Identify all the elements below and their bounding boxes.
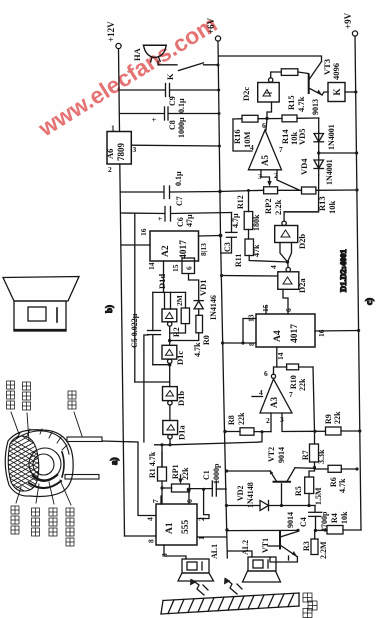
resistor R0 4.7k <box>170 315 211 357</box>
wire to D2a out <box>287 262 289 268</box>
junction A6 out rail <box>218 145 221 148</box>
transistor VT2 9014 <box>267 447 295 482</box>
svg-text:R1 4.7k: R1 4.7k <box>148 451 157 478</box>
capacitor C5 0.022u <box>130 292 161 364</box>
wire A4 pin8 left to rail <box>223 342 257 344</box>
svg-text:A1: A1 <box>165 522 175 534</box>
svg-text:D1.D2:4001: D1.D2:4001 <box>338 249 348 292</box>
gate D1d <box>157 274 177 327</box>
svg-text:4: 4 <box>259 388 263 397</box>
resistor R12 180k <box>236 191 261 240</box>
wire A5 output up <box>266 118 267 130</box>
svg-text:D1b: D1b <box>176 391 186 406</box>
svg-text:7: 7 <box>289 390 293 399</box>
svg-text:R8: R8 <box>227 415 236 425</box>
svg-text:+12V: +12V <box>106 21 116 42</box>
junction R9 rail <box>358 429 361 432</box>
transducer mesh hatch <box>0 425 44 512</box>
resistor R16 10M <box>232 115 258 148</box>
IC A1 555 <box>146 499 207 557</box>
junction R5 bottom <box>307 504 310 507</box>
junction D1c out <box>168 363 171 366</box>
watermark www.elecfans.com <box>33 11 221 142</box>
wire AL2 left to rail <box>227 551 252 557</box>
wire middle rail <box>218 41 227 558</box>
transistor VT1 9014 <box>261 512 297 557</box>
gate D2c <box>241 78 279 102</box>
wire A4 pin13 left <box>243 319 256 344</box>
svg-text:C1: C1 <box>202 470 211 480</box>
svg-text:b): b) <box>104 305 114 313</box>
svg-text:4: 4 <box>269 265 278 269</box>
wire A4 pin16 to rail <box>315 330 359 333</box>
svg-text:1.5M: 1.5M <box>314 487 323 505</box>
svg-text:+6V: +6V <box>206 17 216 34</box>
svg-text:R0: R0 <box>202 335 211 345</box>
arrow AL2 <box>224 578 242 595</box>
junction R12 top <box>247 189 250 192</box>
capacitor C1 1000p <box>202 463 226 496</box>
svg-text:180k: 180k <box>252 214 261 231</box>
wire D2b inputs <box>280 243 292 263</box>
wire A4 pin14 down <box>276 347 278 367</box>
wire A2 pin14 down <box>163 261 165 292</box>
svg-text:R13: R13 <box>317 196 327 211</box>
wire D1c out down <box>169 363 171 386</box>
capacitor C4 4700p <box>299 506 329 533</box>
svg-text:C9: C9 <box>168 96 177 106</box>
potentiometer RP1 22k <box>171 464 190 492</box>
wire relay to rail <box>345 91 356 93</box>
svg-text:C7: C7 <box>175 196 184 206</box>
svg-text:RP2: RP2 <box>263 198 273 214</box>
diode VD2 1N4148 <box>225 482 309 510</box>
wire branch y382 <box>135 381 170 383</box>
svg-text:+: + <box>150 117 159 122</box>
svg-text:C6: C6 <box>176 217 185 227</box>
capacitor C9 0.1u <box>166 84 187 114</box>
svg-text:R10: R10 <box>289 375 298 389</box>
arrow AL1 <box>190 579 208 596</box>
+6V terminal <box>206 17 221 41</box>
svg-text:AL2: AL2 <box>241 540 250 555</box>
op-amp A3 <box>252 369 293 425</box>
svg-text:D2a: D2a <box>297 278 307 293</box>
wire collector top run <box>219 56 322 62</box>
junction VT1 c <box>296 529 299 532</box>
svg-text:4.7k: 4.7k <box>193 342 202 357</box>
svg-text:6: 6 <box>262 121 266 130</box>
svg-text:1: 1 <box>111 124 115 133</box>
label pingbizhao <box>7 381 15 409</box>
wire rail to D2a <box>222 275 278 278</box>
svg-text:6: 6 <box>284 308 293 312</box>
wire bottom node row <box>309 505 315 507</box>
resistor R8 22k <box>223 412 271 435</box>
wire y431 to R9 <box>282 413 326 432</box>
junction emitter rail <box>225 469 228 472</box>
IC A2 4017 <box>139 228 208 272</box>
svg-text:15: 15 <box>171 264 180 272</box>
junction R1 top <box>160 443 163 446</box>
svg-text:a): a) <box>109 458 119 466</box>
junction A2 mid rail <box>219 234 223 238</box>
+12V terminal <box>106 21 121 49</box>
resistor R4 10k <box>314 511 349 534</box>
svg-text:+9V: +9V <box>343 12 353 29</box>
junction C9 rail <box>217 89 220 92</box>
svg-text:AL1: AL1 <box>210 544 219 559</box>
wire VT2 base down <box>281 484 283 506</box>
svg-text:VT2: VT2 <box>267 447 276 462</box>
resistor R5 1.5M <box>294 477 323 506</box>
svg-text:10k: 10k <box>340 511 349 524</box>
svg-text:1N4001: 1N4001 <box>327 124 336 150</box>
junction R13 rail <box>355 188 358 191</box>
svg-text:R12: R12 <box>236 195 245 209</box>
svg-text:4.7k: 4.7k <box>338 478 347 493</box>
wire A4 pin15 up <box>265 306 267 314</box>
svg-text:3: 3 <box>133 145 137 154</box>
resistor R7 3.3k <box>301 431 326 467</box>
svg-text:VT1: VT1 <box>261 538 270 553</box>
svg-text:22k: 22k <box>298 378 307 391</box>
junction switch-rail <box>217 64 220 67</box>
junction C7 row rail <box>218 190 221 193</box>
wire R1 top <box>161 445 163 467</box>
wire RP1 right to C1 <box>190 488 213 490</box>
junction R7 top <box>313 430 316 433</box>
svg-text:10k: 10k <box>327 201 337 215</box>
gate D2a <box>269 265 307 293</box>
transducer AL2 <box>241 540 281 582</box>
svg-text:8|13: 8|13 <box>199 243 208 256</box>
label fushekou <box>11 506 19 534</box>
+9V terminal <box>343 12 358 36</box>
wire VD4 to D2b out <box>284 175 319 212</box>
svg-text:R7: R7 <box>301 450 310 460</box>
resistor R3 2.2M <box>302 530 328 559</box>
junction R7 bottom <box>313 466 316 469</box>
regulator A6 7809 <box>105 124 137 175</box>
wire D2c in from node <box>267 102 272 118</box>
junction D2a rail <box>220 274 223 277</box>
svg-text:K: K <box>332 88 342 95</box>
wire A3 out up <box>274 367 287 374</box>
gate D1b <box>163 387 187 406</box>
svg-text:D2c: D2c <box>241 87 251 101</box>
svg-text:2: 2 <box>266 416 270 425</box>
relay K <box>328 83 345 102</box>
label pingbidiban <box>66 508 74 546</box>
svg-text:R6: R6 <box>329 477 338 487</box>
svg-text:R9: R9 <box>324 414 333 424</box>
svg-text:C8: C8 <box>168 120 177 130</box>
speaker drawing b <box>3 277 79 332</box>
wire VT2 emitter to rail <box>227 470 271 472</box>
wire 555 pin3 down <box>164 545 186 559</box>
transducer AL1 <box>178 544 219 581</box>
wire 555 pin1 right <box>197 536 227 538</box>
hatched bar object <box>161 593 299 614</box>
svg-text:9014: 9014 <box>277 447 286 463</box>
resistor R9 22k <box>324 411 360 435</box>
svg-text:7: 7 <box>279 145 283 154</box>
wire A6 out pin3 <box>131 144 219 147</box>
svg-text:R5: R5 <box>294 486 303 496</box>
junction D1a wire R8 <box>260 430 263 433</box>
svg-text:VD4: VD4 <box>299 158 309 175</box>
wire node row y119 <box>233 118 319 132</box>
wire right rail <box>355 36 361 530</box>
junction D1a wire <box>168 443 171 446</box>
IC A4 4017 <box>247 304 327 360</box>
wire D2a inputs down <box>283 289 288 314</box>
svg-text:D1c: D1c <box>175 351 185 365</box>
capacitor C7 0.1u <box>164 171 184 206</box>
capacitor C3 4.7u <box>221 213 240 254</box>
wire C7 row <box>121 191 221 194</box>
resistor R6 4.7k <box>315 465 359 493</box>
wire A5 pin3 to RP2 arrow <box>261 170 272 187</box>
wire D1a out long right <box>155 432 262 445</box>
svg-text:14: 14 <box>147 262 156 270</box>
wire C9 row <box>119 89 219 91</box>
svg-text:1000p: 1000p <box>212 463 221 484</box>
gate D1c <box>162 345 185 365</box>
wire A2 pin16 to rail left <box>122 244 151 246</box>
wire VT1 emitter <box>288 556 290 560</box>
switch K <box>165 63 218 80</box>
svg-text:16: 16 <box>139 228 148 236</box>
svg-text:R3: R3 <box>302 541 311 551</box>
resistor R2 2M <box>170 292 190 337</box>
svg-text:6: 6 <box>264 369 268 378</box>
svg-text:VD5: VD5 <box>297 128 307 145</box>
svg-text:A6: A6 <box>105 149 115 159</box>
wire HA to switch <box>158 61 177 65</box>
wire A5 feedback left <box>233 119 252 151</box>
wire 555 pin6 up <box>188 490 190 504</box>
wire D2b out up <box>284 212 318 221</box>
svg-text:R4: R4 <box>330 513 339 523</box>
svg-text:RP1: RP1 <box>171 464 180 479</box>
label xiezhenpian <box>32 508 40 536</box>
svg-text:555: 555 <box>181 520 191 535</box>
svg-text:47μ: 47μ <box>185 214 194 227</box>
svg-text:2M: 2M <box>175 295 184 306</box>
wire left rail to 555 <box>125 535 157 537</box>
junction A4 pin8 rail <box>221 341 224 344</box>
svg-text:4096: 4096 <box>331 63 341 80</box>
wire D1c out junction <box>153 364 170 366</box>
transducer pin bottom <box>65 475 99 480</box>
junction relay rail <box>354 90 357 93</box>
junction RP1 left <box>160 486 163 489</box>
svg-text:4: 4 <box>146 517 155 521</box>
label yinjiao <box>68 391 76 409</box>
svg-text:C3: C3 <box>223 242 232 252</box>
wire R7 node to R5 top <box>309 468 315 478</box>
svg-text:0.1μ: 0.1μ <box>177 98 186 113</box>
pin box A2 bottom <box>182 258 195 274</box>
transducer pin top <box>67 437 102 442</box>
junction VD5 rail <box>355 151 358 154</box>
wire RP1 left <box>162 487 172 489</box>
resistor R10 22k <box>287 364 315 431</box>
svg-text:22k: 22k <box>237 412 246 425</box>
svg-text:R2: R2 <box>172 327 181 337</box>
leader lines transducer <box>11 412 82 505</box>
potentiometer RP2 2.2k <box>263 187 283 215</box>
capacitor C8 1000u <box>150 107 186 138</box>
wire RP2 left to rail <box>220 190 264 191</box>
wire long left vert2 <box>144 335 148 442</box>
svg-text:2.2M: 2.2M <box>319 541 328 559</box>
wire VT1 emitter to AL2 <box>270 557 297 562</box>
svg-text:22k: 22k <box>333 411 342 424</box>
svg-text:4017: 4017 <box>179 240 189 259</box>
svg-text:D2b: D2b <box>297 234 307 249</box>
svg-text:D1d: D1d <box>157 274 167 289</box>
svg-text:2.2k: 2.2k <box>273 199 283 215</box>
svg-text:4017: 4017 <box>290 324 300 343</box>
svg-text:6: 6 <box>185 266 194 270</box>
svg-text:A4: A4 <box>273 330 283 342</box>
svg-text:4.7μ: 4.7μ <box>231 213 240 228</box>
svg-text:47k: 47k <box>252 244 261 257</box>
label pingbiwang <box>23 382 31 410</box>
resistor R1 4.7k <box>148 451 167 504</box>
wire VT3 emitter to relay <box>322 92 328 95</box>
svg-text:22k: 22k <box>181 467 190 480</box>
wire D1d out node <box>169 326 171 345</box>
gate D1a <box>163 421 187 441</box>
svg-text:8: 8 <box>147 539 156 543</box>
resistor R14 10k <box>280 115 299 145</box>
svg-text:4: 4 <box>250 143 254 152</box>
diode VD5 <box>297 124 336 153</box>
svg-text:7: 7 <box>151 499 160 503</box>
wire A2 right to mid rail <box>199 235 221 238</box>
svg-text:1000μ: 1000μ <box>177 117 186 138</box>
transistor VT3 9013 <box>309 59 341 115</box>
svg-text:C4: C4 <box>299 517 308 527</box>
wire VT2 collector to R7 node <box>295 467 315 470</box>
junction gates <box>286 260 289 263</box>
diode VD1 <box>189 275 219 321</box>
loudspeaker HA <box>132 45 166 62</box>
diode VD4 <box>299 153 334 185</box>
transducer drawing body <box>5 429 73 497</box>
resistor R15 4.7k <box>281 69 308 112</box>
wire 555 pin2 right <box>198 489 210 519</box>
svg-text:9014: 9014 <box>286 512 295 528</box>
svg-text:HA: HA <box>132 47 142 61</box>
wire C8 row <box>120 113 220 115</box>
svg-text:VD2: VD2 <box>236 485 245 501</box>
resistor R11 47k <box>234 239 261 267</box>
svg-text:A3: A3 <box>269 397 279 408</box>
junction VD5 mid <box>317 151 320 154</box>
capacitor C6 47u <box>156 207 194 228</box>
svg-text:1N4001: 1N4001 <box>325 159 334 185</box>
svg-text:A2: A2 <box>161 245 171 257</box>
svg-text:7809: 7809 <box>116 143 126 162</box>
svg-text:0.1μ: 0.1μ <box>174 171 183 186</box>
wire R11 bottom to gates node <box>249 256 287 263</box>
wire left rail top <box>119 49 120 131</box>
label bianmawu <box>303 593 317 618</box>
svg-text:1N4148: 1N4148 <box>246 482 255 508</box>
wire left rail main <box>120 164 125 536</box>
svg-text:c): c) <box>364 298 374 305</box>
svg-text:4.7k: 4.7k <box>296 96 306 112</box>
op-amp A5 <box>248 121 283 181</box>
svg-text:A5: A5 <box>260 155 270 166</box>
wire row y530 <box>227 529 298 531</box>
resistor R13 10k <box>278 187 357 214</box>
wire long left vert1 <box>134 213 136 382</box>
junction mid low <box>225 528 228 531</box>
wire VD5 node to rail <box>319 152 357 154</box>
wire A5 pin2 diag <box>277 170 299 190</box>
svg-text:D1a: D1a <box>177 425 187 440</box>
wire left y442 <box>102 441 156 516</box>
wire right rail bottom to R4 <box>343 529 361 531</box>
wire D1b to D1a <box>169 405 171 421</box>
svg-text:VD1: VD1 <box>198 279 208 296</box>
wire C6 row <box>121 213 232 214</box>
junction node D1d out <box>168 339 171 342</box>
svg-text:3.3k: 3.3k <box>317 449 326 464</box>
svg-text:IN4146: IN4146 <box>209 295 218 320</box>
svg-text:2: 2 <box>108 165 112 174</box>
svg-text:+: + <box>156 216 165 221</box>
svg-text:R15: R15 <box>286 95 296 110</box>
svg-text:R11: R11 <box>234 254 243 267</box>
label gudingjia <box>49 508 57 536</box>
junction C8 rail <box>218 112 221 115</box>
junction A4 rail <box>357 329 360 332</box>
svg-text:9013: 9013 <box>311 99 320 115</box>
junction node A5 out <box>265 117 268 120</box>
wire 555 pin7 up <box>160 496 162 504</box>
svg-text:K: K <box>165 73 175 80</box>
wire D2c out to R15 <box>271 72 281 78</box>
gate D2b <box>275 221 307 249</box>
wire D1d input bus <box>153 292 186 309</box>
